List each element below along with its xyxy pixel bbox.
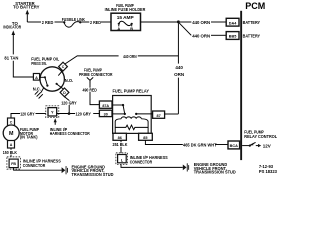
wire 465 DK GRN WHT from relay 85 <box>145 140 182 144</box>
ground G1 symbol <box>62 166 68 174</box>
wire 440 ORN fuse to junction <box>141 21 179 23</box>
svg-text:FUEL PUMP RELAY: FUEL PUMP RELAY <box>113 88 150 93</box>
svg-text:A: A <box>117 26 120 31</box>
PCM module boundary <box>240 1 265 160</box>
svg-text:120 GRY: 120 GRY <box>61 100 77 105</box>
label 490 RED <box>82 87 98 92</box>
svg-text:INDICATOR: INDICATOR <box>3 24 21 29</box>
svg-text:N.O.: N.O. <box>65 78 73 83</box>
svg-text:120 GRY: 120 GRY <box>20 111 34 116</box>
svg-text:PS 18323: PS 18323 <box>259 169 278 174</box>
wire 120 GRY from switch D <box>65 97 70 114</box>
label 440 ORN (stacked) <box>173 64 184 78</box>
label FUEL PUMP RELAY CONTROL <box>244 129 277 139</box>
fuel pump motor M (in tank) <box>8 118 15 126</box>
wire to engine ground <box>14 168 62 170</box>
pin 87 <box>153 111 165 118</box>
inline F/P harness connector FB <box>7 157 21 169</box>
wire 440 ORN from oil press switch C <box>65 56 178 64</box>
relay suppression resistor loop <box>115 119 148 134</box>
connector pin DA4 <box>226 18 239 26</box>
svg-text:440 ORN: 440 ORN <box>123 54 137 59</box>
relay coil <box>121 117 141 119</box>
pin 85 <box>139 133 153 140</box>
label FUEL PUMP INLINE FUSE HOLDER <box>105 3 146 12</box>
wire 2 RED (battery feed) <box>27 21 41 23</box>
svg-text:87: 87 <box>156 114 160 118</box>
wire 87 pin to 440 ORN vertical <box>165 113 179 115</box>
switch contacts <box>40 71 63 89</box>
svg-text:FB: FB <box>11 162 16 166</box>
wire 440 ORN vertical (junction to relay 87) <box>177 23 179 114</box>
pin D (diamond) <box>60 88 69 97</box>
pin C (diamond) <box>59 62 68 71</box>
pin B <box>130 25 133 31</box>
fuse F1 15A symbol <box>118 21 133 25</box>
svg-text:C: C <box>10 121 13 125</box>
relay armature lever <box>113 106 126 115</box>
wire <box>215 144 228 146</box>
pin A <box>117 25 120 31</box>
off-page arrow to battery <box>26 10 30 22</box>
svg-text:TRANSMISSION STUD: TRANSMISSION STUD <box>72 172 114 177</box>
node STARTER/TO BATTERY label <box>13 1 40 10</box>
svg-text:PRIME CONNECTOR: PRIME CONNECTOR <box>79 72 113 77</box>
svg-text:81 TAN: 81 TAN <box>4 56 19 61</box>
svg-text:DA4: DA4 <box>229 21 237 25</box>
svg-text:INLINE FUSE HOLDER: INLINE FUSE HOLDER <box>105 7 146 12</box>
junction node <box>177 20 180 23</box>
pin 87A <box>99 101 112 108</box>
svg-text:2 RED: 2 RED <box>90 20 102 25</box>
wire to engine ground <box>121 164 183 167</box>
svg-text:15 AMP: 15 AMP <box>117 15 135 21</box>
svg-text:CONNECTOR: CONNECTOR <box>130 159 153 164</box>
svg-text:BCA: BCA <box>230 144 238 148</box>
svg-text:PRESS SW.: PRESS SW. <box>31 61 46 66</box>
wire 490 RED to relay 87A <box>90 80 99 104</box>
motor pin A <box>8 141 15 149</box>
svg-text:30: 30 <box>104 113 108 117</box>
fusible link symbol <box>63 21 82 27</box>
svg-text:CONNECTOR: CONNECTOR <box>23 163 46 168</box>
svg-text:12V: 12V <box>263 143 271 148</box>
svg-text:M: M <box>9 131 14 137</box>
ground hatch (N.C. to case) <box>35 88 44 99</box>
pin A <box>33 74 39 81</box>
wire <box>93 113 99 115</box>
svg-text:N.C.: N.C. <box>33 86 41 91</box>
fuse holder box <box>111 13 141 30</box>
label ENGINE GROUND VEHICLE FRONT, TRANSMISSION STUD <box>72 164 114 177</box>
relay contact 87A <box>113 104 125 106</box>
svg-text:120 GRY: 120 GRY <box>76 111 91 116</box>
connector pin BCA <box>228 141 240 149</box>
label FUEL PUMP OIL PRESS SW. <box>31 56 59 66</box>
wire <box>211 34 226 36</box>
label INLINE I/P HARNESS CONNECTOR with arrow <box>50 118 90 136</box>
wire 150 BLK <box>10 148 12 157</box>
relay contact 87 line <box>135 113 153 115</box>
junction node with switch D wire <box>68 112 71 115</box>
svg-text:ORN: ORN <box>174 72 184 77</box>
wire 251 BLK from relay 86 <box>120 140 122 153</box>
label 251 BLK <box>112 142 128 147</box>
label 150 BLK <box>2 150 17 155</box>
svg-text:85: 85 <box>143 136 147 140</box>
label 81 TAN <box>4 55 19 61</box>
pin 30 <box>99 110 112 116</box>
inline I/P harness connector L <box>116 153 128 164</box>
svg-text:BB5: BB5 <box>229 35 237 39</box>
svg-text:FUSIBLE LINK: FUSIBLE LINK <box>62 17 86 22</box>
svg-text:TO BATTERY: TO BATTERY <box>13 5 40 10</box>
node TO INDICATOR <box>3 21 21 29</box>
svg-text:2 RED: 2 RED <box>42 20 54 25</box>
PCM driver switch to 12V <box>242 142 261 147</box>
motor body <box>3 125 19 141</box>
svg-text:251 BLK: 251 BLK <box>113 142 129 147</box>
wire to PCM battery pin 1 <box>180 21 192 23</box>
wire <box>57 113 75 115</box>
oil pressure switch S1 body <box>40 67 64 91</box>
wire <box>36 113 46 115</box>
connector pin BB5 <box>226 32 239 40</box>
svg-text:150 BLK: 150 BLK <box>3 150 18 155</box>
wire 81 TAN to switch pin A <box>13 61 33 77</box>
label date code <box>259 164 278 174</box>
ground G2 symbol <box>183 163 189 171</box>
off-page arrow to indicator <box>12 30 16 54</box>
label ENGINE GROUND VEHICLE FRONT, TRANSMISSION STUD <box>194 162 236 175</box>
label FUEL PUMP PRIME CONNECTOR <box>79 67 113 77</box>
svg-text:HARNESS CONNECTOR: HARNESS CONNECTOR <box>50 131 90 136</box>
wire 120 GRY horizontal (motor to relay 30) <box>11 114 20 118</box>
wire <box>211 21 226 23</box>
svg-text:490 RED: 490 RED <box>83 87 97 92</box>
svg-text:RELAY CONTROL: RELAY CONTROL <box>244 134 277 139</box>
svg-text:A: A <box>10 143 13 147</box>
svg-text:465 DK GRN WHT: 465 DK GRN WHT <box>183 142 217 147</box>
svg-text:B: B <box>130 26 133 31</box>
svg-text:TRANSMISSION STUD: TRANSMISSION STUD <box>194 170 236 175</box>
svg-text:86: 86 <box>118 136 122 140</box>
inline I/P harness connector Y <box>46 106 59 118</box>
wire <box>101 21 111 23</box>
svg-text:(IN TANK): (IN TANK) <box>20 135 38 140</box>
svg-text:PCM: PCM <box>245 1 265 11</box>
pin 86 <box>113 133 126 140</box>
label FUEL PUMP MOTOR (IN TANK) <box>20 127 39 140</box>
svg-text:440 ORN: 440 ORN <box>192 20 211 25</box>
relay K1 body <box>113 96 152 134</box>
label INLINE I/P HARNESS CONNECTOR <box>130 155 168 165</box>
wire <box>55 21 64 23</box>
svg-text:87A: 87A <box>102 104 109 108</box>
svg-text:440: 440 <box>175 65 183 70</box>
fuel pump prime connector symbol <box>87 77 93 83</box>
svg-text:440 ORN: 440 ORN <box>192 33 211 38</box>
label INLINE I/P HARNESS CONNECTOR <box>23 158 61 168</box>
wire diagonal to PCM battery pin 2 <box>179 23 191 36</box>
svg-text:A: A <box>35 76 38 80</box>
wire <box>82 21 90 23</box>
svg-text:BATTERY: BATTERY <box>243 34 261 39</box>
label 120 GRY <box>61 100 80 105</box>
svg-text:BATTERY: BATTERY <box>243 20 261 25</box>
svg-text:Y: Y <box>51 110 54 115</box>
